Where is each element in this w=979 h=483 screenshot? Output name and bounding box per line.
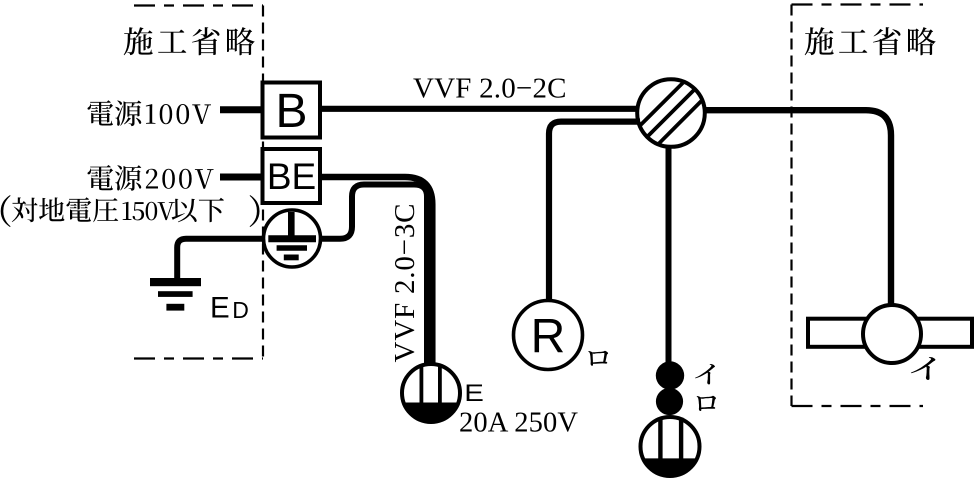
svg-text:B: B <box>275 85 307 138</box>
fluorescent lamp イ <box>808 305 972 363</box>
label ロ (switch) <box>697 396 716 411</box>
svg-text:E: E <box>464 379 484 406</box>
label イ (switch) <box>695 364 715 384</box>
svg-text:VVF 2.0−3C: VVF 2.0−3C <box>389 204 421 363</box>
label ED <box>210 292 249 325</box>
earth terminal <box>264 210 321 267</box>
breaker BE <box>263 149 321 203</box>
label イ (lamp) <box>911 357 936 380</box>
wire: joint cable stub into outlet E <box>425 358 435 366</box>
junction box <box>637 79 705 147</box>
wire: earth terminal to outlet E (earth conductor, inner bend) <box>322 185 427 367</box>
svg-text:BE: BE <box>267 156 316 197</box>
svg-text:20A 250V: 20A 250V <box>459 408 578 439</box>
label ロ (for R) <box>588 351 608 366</box>
svg-text:R: R <box>531 311 566 364</box>
wire: 100V source to breaker B <box>220 106 262 113</box>
switch ロ (dot) <box>656 388 683 415</box>
wire: junction box down to switches <box>666 145 672 364</box>
label （対地電圧150V以下） <box>1 195 260 227</box>
right construction-omitted zone (dash-dot box) <box>792 5 924 407</box>
svg-text:D: D <box>232 297 249 323</box>
breaker B <box>263 83 321 139</box>
label 施工省略 (right) <box>805 27 936 55</box>
source label 電源100V <box>88 100 212 126</box>
wire: junction box to room air conditioner R <box>549 122 640 301</box>
ground ED <box>150 278 201 311</box>
source label 電源200V <box>88 165 214 191</box>
wire: junction box to fluorescent lamp <box>703 110 891 306</box>
wire: 200V source to breaker BE <box>220 174 262 181</box>
switch イ (dot) <box>656 361 684 389</box>
wire: BE to outlet E (circuit conductors, outer bend) <box>320 177 432 366</box>
left construction-omitted zone (dash-dot box) <box>134 6 263 359</box>
wire: earth terminal to ground ED <box>177 239 264 278</box>
outlet (bottom, wall receptacle) <box>641 417 700 476</box>
svg-text:E: E <box>210 292 230 325</box>
outlet E 20A250V <box>402 364 460 422</box>
label 施工省略 (left) <box>124 27 255 55</box>
room air conditioner R <box>514 301 583 370</box>
svg-text:VVF 2.0−2C: VVF 2.0−2C <box>413 73 567 105</box>
wire: breaker B to junction box <box>320 106 640 112</box>
